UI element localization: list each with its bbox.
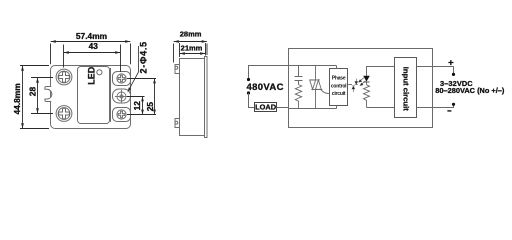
- front view body outline: [51, 66, 131, 129]
- label -: [447, 110, 451, 112]
- wire input top: [367, 67, 395, 76]
- svg-text:Input circuit: Input circuit: [401, 67, 410, 111]
- input circuit box U3: [395, 58, 417, 118]
- input screw 3 (top-right): [117, 74, 126, 83]
- svg-text:circuit: circuit: [332, 91, 346, 97]
- wire AC top: [249, 66, 337, 80]
- svg-text:28mm: 28mm: [180, 30, 202, 39]
- svg-text:57.4mm: 57.4mm: [76, 31, 107, 41]
- svg-text:Phase: Phase: [332, 76, 346, 82]
- dimension 43: [64, 45, 121, 73]
- wire - terminal: [417, 106, 454, 108]
- terminal recess capsule (bottom-right): [113, 108, 131, 122]
- wire phototriac stub: [348, 84, 353, 86]
- svg-text:2-Φ4.5: 2-Φ4.5: [138, 41, 148, 73]
- terminal recess capsule (top-right): [113, 72, 131, 86]
- svg-text:80–280VAC (No +/–): 80–280VAC (No +/–): [435, 86, 505, 95]
- node dot top source: [247, 78, 250, 81]
- svg-text:+: +: [448, 58, 454, 69]
- bottom mounting tab: [175, 119, 180, 128]
- LED D1 (opto emitter): [363, 76, 370, 82]
- optocoupler light arrows: [359, 78, 366, 86]
- side notch cutout: [45, 87, 52, 102]
- screw terminal 1 (top-left): [56, 69, 72, 85]
- dimension 28mm (side): [174, 42, 208, 63]
- svg-text:43: 43: [89, 41, 99, 51]
- dimension 57.4mm: [51, 42, 131, 65]
- svg-text:LOAD: LOAD: [255, 102, 277, 111]
- dimension 12: [142, 97, 144, 115]
- terminal recess capsule (middle-right): [113, 89, 131, 103]
- base plate: [205, 57, 208, 138]
- LOAD box: [255, 103, 277, 112]
- svg-text:LED: LED: [86, 66, 96, 85]
- node dot -: [452, 103, 455, 106]
- side view body: [180, 59, 205, 136]
- resistor R snubber: [295, 85, 301, 109]
- svg-text:12: 12: [132, 101, 142, 111]
- leader line 2-Phi4.5: [138, 46, 140, 72]
- top mounting tab: [175, 65, 180, 74]
- wire phase box top stub: [336, 66, 338, 69]
- mounting hole (middle-right): [115, 90, 128, 103]
- SSR outer box: [289, 49, 433, 128]
- node dot bottom source: [247, 91, 250, 94]
- svg-text:28: 28: [27, 87, 37, 97]
- svg-text:25: 25: [145, 102, 155, 112]
- resistor R input: [364, 85, 370, 108]
- wire input bottom: [367, 107, 395, 109]
- dimension 44.8mm: [20, 66, 49, 129]
- svg-text:control: control: [331, 83, 347, 89]
- triac gate wire: [321, 90, 330, 94]
- phototriac U2 detector: [352, 79, 358, 92]
- screw terminal 2 (bottom-left): [56, 106, 72, 122]
- input screw 4 (bottom-right): [117, 110, 126, 119]
- dimension 28 (screw spacing): [31, 78, 53, 114]
- dimension 21mm (side): [180, 43, 206, 57]
- capacitor C snubber: [295, 66, 303, 85]
- wire source to LOAD: [249, 93, 255, 107]
- wire + terminal: [417, 67, 454, 74]
- label panel: [78, 67, 110, 124]
- panel shadow line: [110, 68, 112, 122]
- svg-text:44.8mm: 44.8mm: [12, 83, 22, 114]
- wire bottom rail: [277, 107, 289, 109]
- svg-text:21mm: 21mm: [181, 44, 203, 53]
- LED window circle: [97, 70, 102, 75]
- node dot +: [452, 73, 455, 76]
- extension lines right screws: [127, 79, 156, 115]
- wire phase box bottom stub: [336, 106, 338, 109]
- dimension 25: [154, 79, 156, 115]
- svg-text:480VAC: 480VAC: [247, 82, 284, 93]
- triac Q1: [309, 66, 329, 109]
- phase control circuit box U1: [330, 69, 348, 106]
